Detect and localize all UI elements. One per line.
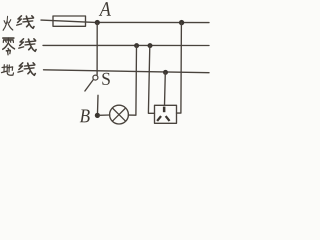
label 线 (of 火线) — [17, 16, 34, 29]
node A junction dot — [95, 20, 100, 25]
wire: B to lamp — [99, 114, 110, 116]
wire: live (top horizontal) — [41, 20, 209, 23]
label 地 (ground wire label) — [1, 65, 13, 76]
label B — [80, 110, 90, 123]
label 零 (neutral wire label) — [3, 38, 15, 55]
socket XS (three-hole socket box) — [155, 105, 177, 123]
socket right slot — [165, 115, 171, 121]
label 线 (of 地线) — [18, 63, 35, 76]
switch S blade — [85, 80, 93, 91]
fuse (on live wire) — [53, 16, 86, 26]
wire: live junction down to socket right — [177, 23, 182, 114]
wire: A down to switch — [96, 23, 98, 76]
wire: ground junction down to socket top — [164, 72, 167, 105]
socket earth slot — [163, 107, 166, 113]
wire: ground (bottom horizontal) — [44, 70, 210, 73]
label 线 (of 零线) — [19, 39, 36, 52]
label A — [99, 2, 111, 16]
node B junction dot — [95, 113, 100, 118]
junction dot (ground, socket branch) — [163, 70, 168, 75]
socket left slot — [156, 115, 162, 121]
label 火 (live wire label, drawn as strokes) — [3, 16, 13, 30]
junction dot (live wire, right) — [179, 20, 184, 25]
junction dot (neutral, socket branch) — [148, 43, 153, 48]
junction dot (neutral, lamp branch) — [134, 43, 139, 48]
wire: neutral junction down to socket left — [148, 46, 154, 114]
lamp L1 (circle) — [110, 105, 129, 124]
switch S pivot circle — [93, 75, 98, 80]
wire: lamp to neutral junction — [128, 46, 136, 116]
label S — [102, 73, 109, 85]
wire: switch to node B — [97, 95, 100, 113]
wire: neutral (middle horizontal) — [43, 44, 209, 46]
lamp L1 (X cross) — [112, 108, 125, 121]
